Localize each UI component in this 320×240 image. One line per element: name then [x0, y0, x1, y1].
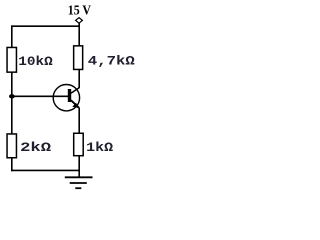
wire collector vertical	[78, 69, 80, 88]
ground bar 1	[65, 176, 93, 178]
svg-text:4,7kΩ: 4,7kΩ	[88, 54, 135, 69]
wire terminal to R2 top	[78, 23, 80, 46]
svg-text:2kΩ: 2kΩ	[20, 140, 51, 155]
svg-text:1kΩ: 1kΩ	[86, 140, 113, 155]
svg-text:10kΩ: 10kΩ	[18, 54, 53, 69]
terminal (supply diamond)	[76, 18, 83, 24]
resistor R3 2k box	[7, 134, 16, 158]
transistor Q1 base bar	[68, 89, 71, 102]
transistor Q1 collector diagonal	[71, 88, 79, 94]
junction node (divider tap)	[9, 94, 15, 98]
wire top horizontal	[11, 25, 80, 27]
transistor Q1 emitter diagonal	[71, 100, 79, 108]
wire emitter vertical	[78, 108, 80, 134]
wire left vertical middle	[11, 72, 13, 134]
wire left vertical upper	[11, 25, 13, 47]
resistor R4 1k box	[74, 133, 84, 155]
resistor R1 10k box	[7, 47, 16, 72]
wire bottom horizontal	[11, 169, 80, 171]
ground bar 2	[70, 182, 87, 184]
transistor Q1 circle	[53, 85, 79, 111]
svg-text:15 V: 15 V	[68, 4, 91, 19]
ground bar 3	[75, 187, 81, 189]
transistor Q1 emitter arrow	[72, 103, 79, 108]
wire base horizontal	[12, 95, 69, 97]
wire left vertical lower	[11, 158, 13, 171]
resistor R2 4.7k box	[74, 46, 83, 70]
wire right vertical to ground	[78, 156, 80, 178]
